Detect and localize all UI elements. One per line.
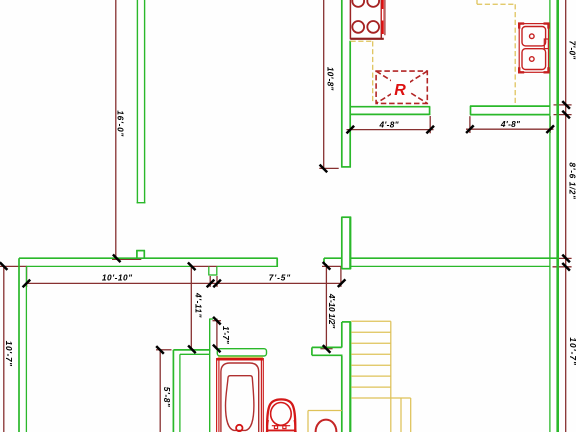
svg-text:7'-5": 7'-5" [269,272,292,282]
svg-text:4'-10 1/2": 4'-10 1/2" [327,293,337,330]
svg-text:16'-0": 16'-0" [115,110,125,137]
svg-text:R: R [394,82,406,99]
svg-text:1'-7": 1'-7" [221,326,231,345]
svg-text:10'-7": 10'-7" [4,341,14,367]
svg-text:7'-0": 7'-0" [568,41,576,61]
svg-text:4'-8": 4'-8" [500,119,521,129]
svg-text:5'-8": 5'-8" [162,387,172,408]
svg-text:4'-11": 4'-11" [194,292,204,318]
svg-text:10'-7": 10'-7" [568,337,576,366]
svg-text:10'-8": 10'-8" [326,67,336,92]
svg-text:4'-8": 4'-8" [378,119,399,129]
svg-text:10'-10": 10'-10" [102,272,133,282]
svg-text:8'-6 1/2": 8'-6 1/2" [568,162,576,200]
